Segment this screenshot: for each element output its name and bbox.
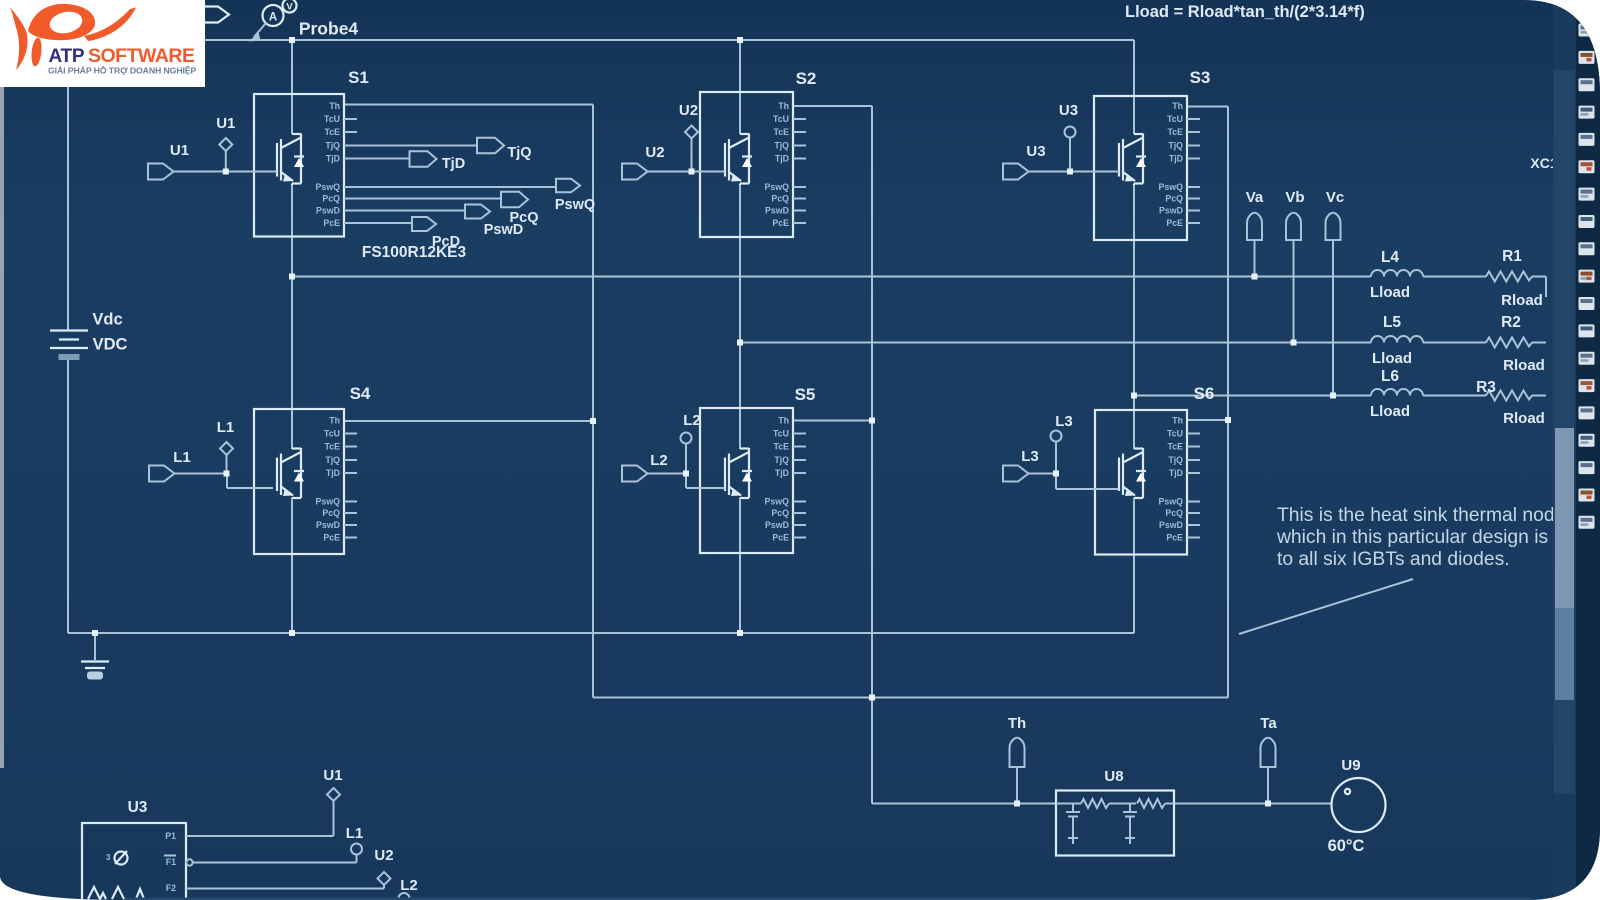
svg-text:P1: P1	[165, 831, 176, 841]
svg-text:PcQ: PcQ	[322, 508, 340, 518]
svg-text:3: 3	[106, 853, 111, 862]
svg-text:U1: U1	[170, 142, 189, 159]
svg-text:PcE: PcE	[323, 533, 340, 543]
svg-text:U1: U1	[216, 115, 235, 132]
svg-text:Th: Th	[1172, 101, 1183, 111]
svg-text:TjD: TjD	[326, 468, 340, 478]
svg-text:PcE: PcE	[772, 533, 789, 543]
svg-text:L2: L2	[683, 412, 701, 429]
svg-text:L2: L2	[650, 452, 668, 469]
svg-text:F2: F2	[166, 883, 176, 893]
svg-text:TjQ: TjQ	[1168, 141, 1183, 151]
svg-text:Th: Th	[329, 416, 340, 426]
svg-text:S3: S3	[1190, 68, 1211, 87]
svg-text:Rload: Rload	[1503, 357, 1545, 374]
svg-text:Th: Th	[329, 101, 340, 111]
svg-text:U2: U2	[645, 144, 664, 161]
svg-text:PswQ: PswQ	[316, 497, 341, 507]
svg-text:TjD: TjD	[442, 156, 465, 172]
svg-text:TcU: TcU	[324, 114, 340, 124]
svg-text:PswQ: PswQ	[1159, 497, 1184, 507]
svg-text:TcE: TcE	[1168, 127, 1184, 137]
svg-text:U3: U3	[1026, 143, 1045, 160]
svg-text:L1: L1	[346, 825, 364, 842]
svg-text:PswQ: PswQ	[316, 182, 341, 192]
svg-text:Rload: Rload	[1501, 292, 1543, 309]
svg-text:PcQ: PcQ	[771, 508, 789, 518]
svg-text:U9: U9	[1341, 757, 1360, 774]
svg-text:PswD: PswD	[765, 206, 789, 216]
svg-text:V: V	[286, 2, 293, 13]
svg-text:Vb: Vb	[1285, 189, 1304, 206]
svg-text:S5: S5	[795, 385, 816, 404]
svg-text:which in this particular desig: which in this particular design is	[1276, 527, 1548, 548]
svg-text:TcE: TcE	[774, 442, 790, 452]
svg-text:PswD: PswD	[316, 520, 340, 530]
svg-text:Th: Th	[778, 416, 789, 426]
svg-text:Lload: Lload	[1370, 284, 1410, 301]
svg-text:U1: U1	[323, 767, 342, 784]
svg-text:U8: U8	[1104, 768, 1123, 785]
svg-text:TjD: TjD	[1169, 154, 1183, 164]
svg-text:PswQ: PswQ	[765, 182, 790, 192]
svg-text:PswD: PswD	[316, 206, 340, 216]
svg-text:L6: L6	[1381, 368, 1399, 385]
svg-text:TcU: TcU	[1167, 429, 1183, 439]
svg-text:U2: U2	[374, 847, 393, 864]
svg-text:PswQ: PswQ	[555, 197, 595, 213]
svg-text:TjQ: TjQ	[325, 455, 340, 465]
svg-text:Vdc: Vdc	[92, 311, 122, 329]
svg-text:L1: L1	[217, 419, 235, 436]
svg-text:GIẢI PHÁP HỖ TRỢ DOANH NGHIỆP: GIẢI PHÁP HỖ TRỢ DOANH NGHIỆP	[48, 65, 196, 76]
svg-text:TjQ: TjQ	[325, 141, 340, 151]
svg-text:TjQ: TjQ	[507, 145, 531, 161]
svg-text:U3: U3	[1059, 102, 1078, 119]
svg-text:TjQ: TjQ	[1168, 455, 1183, 465]
svg-text:Th: Th	[1008, 715, 1026, 732]
svg-text:TcU: TcU	[773, 429, 789, 439]
svg-text:TjD: TjD	[775, 154, 789, 164]
svg-text:PcE: PcE	[1166, 533, 1183, 543]
svg-text:L2: L2	[400, 877, 418, 894]
svg-text:Th: Th	[1172, 416, 1183, 426]
svg-text:TjD: TjD	[775, 468, 789, 478]
svg-text:PcE: PcE	[772, 218, 789, 228]
svg-text:F1: F1	[166, 857, 176, 867]
svg-text:PswD: PswD	[1159, 206, 1183, 216]
svg-text:Th: Th	[778, 101, 789, 111]
svg-text:TcU: TcU	[324, 429, 340, 439]
svg-text:L5: L5	[1383, 314, 1401, 331]
svg-text:TcU: TcU	[773, 114, 789, 124]
svg-text:Ta: Ta	[1260, 715, 1277, 732]
svg-text:S4: S4	[350, 384, 371, 403]
svg-text:R1: R1	[1502, 248, 1522, 265]
svg-text:S1: S1	[348, 68, 369, 87]
svg-text:TcE: TcE	[1168, 442, 1184, 452]
svg-text:Probe4: Probe4	[299, 19, 359, 39]
svg-text:Vc: Vc	[1326, 189, 1344, 206]
svg-text:S6: S6	[1194, 384, 1215, 403]
svg-text:PcQ: PcQ	[1165, 194, 1183, 204]
svg-text:Lload: Lload	[1370, 403, 1410, 420]
svg-text:R2: R2	[1501, 314, 1521, 331]
svg-text:PcQ: PcQ	[771, 194, 789, 204]
svg-text:L4: L4	[1381, 249, 1399, 266]
svg-text:TcE: TcE	[774, 127, 790, 137]
svg-text:PcE: PcE	[323, 218, 340, 228]
svg-text:TjD: TjD	[1169, 468, 1183, 478]
svg-text:to all six IGBTs and diodes.: to all six IGBTs and diodes.	[1277, 549, 1510, 570]
svg-text:U2: U2	[679, 102, 698, 119]
svg-text:Lload: Lload	[1372, 350, 1412, 367]
svg-text:TjQ: TjQ	[774, 455, 789, 465]
svg-text:R3: R3	[1476, 379, 1496, 396]
svg-text:This is the heat sink thermal: This is the heat sink thermal node	[1277, 505, 1565, 526]
svg-text:L3: L3	[1055, 413, 1073, 430]
svg-text:Rload: Rload	[1503, 410, 1545, 427]
svg-text:PswD: PswD	[484, 222, 524, 238]
svg-text:SOFTWARE: SOFTWARE	[88, 45, 195, 67]
svg-text:PcQ: PcQ	[1165, 508, 1183, 518]
svg-text:A: A	[269, 12, 277, 24]
svg-text:TjQ: TjQ	[774, 141, 789, 151]
svg-text:PswD: PswD	[1159, 520, 1183, 530]
svg-text:L1: L1	[173, 449, 191, 466]
svg-text:PswD: PswD	[765, 520, 789, 530]
svg-text:ATP: ATP	[49, 46, 85, 67]
svg-text:Va: Va	[1246, 189, 1264, 206]
svg-text:PswQ: PswQ	[765, 497, 790, 507]
svg-text:TcE: TcE	[325, 127, 341, 137]
svg-text:TcU: TcU	[1167, 114, 1183, 124]
svg-text:VDC: VDC	[93, 336, 128, 354]
svg-text:PcQ: PcQ	[322, 194, 340, 204]
svg-text:PswQ: PswQ	[1159, 182, 1184, 192]
svg-text:L3: L3	[1021, 448, 1039, 465]
svg-text:TjD: TjD	[326, 154, 340, 164]
svg-text:PcD: PcD	[432, 234, 460, 250]
svg-text:PcE: PcE	[1166, 218, 1183, 228]
svg-text:U3: U3	[128, 799, 148, 816]
svg-text:TcE: TcE	[325, 442, 341, 452]
svg-text:Lload = Rload*tan_th/(2*3.14*f: Lload = Rload*tan_th/(2*3.14*f)	[1125, 3, 1365, 21]
svg-text:S2: S2	[796, 69, 817, 88]
svg-text:60°C: 60°C	[1328, 837, 1365, 855]
